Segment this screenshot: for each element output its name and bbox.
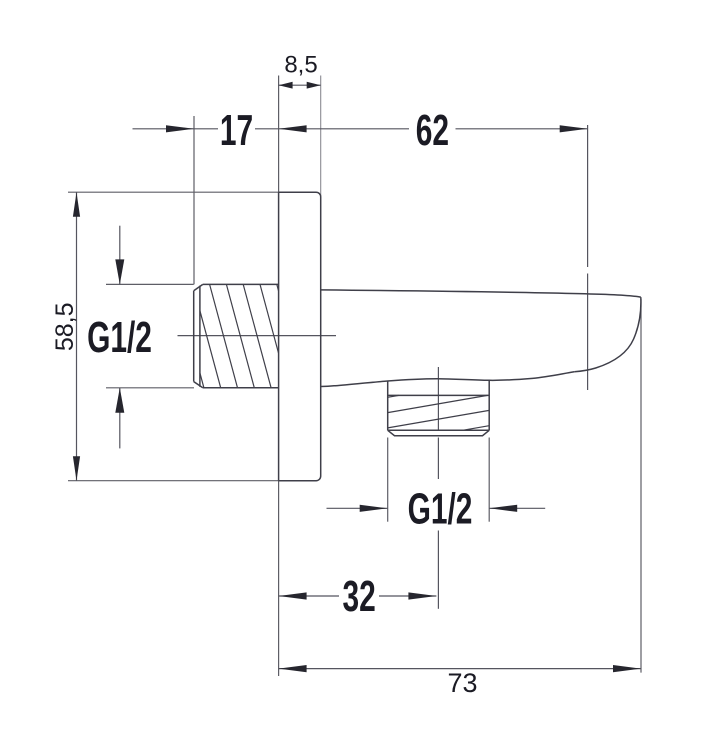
dimension 32 (wall to outlet axis)	[279, 571, 437, 620]
svg-text:8,5: 8,5	[284, 51, 317, 78]
extension line: connector left face vertical for 17 dim	[193, 116, 195, 284]
inlet connector G1/2 (threaded, side view)	[194, 284, 279, 387]
body outline (spout / holder)	[321, 290, 641, 387]
extension line: body tip vertical for 73 dim	[640, 299, 642, 673]
extension line: plate bottom edge extended left for 58,5 dim	[68, 480, 279, 482]
inlet connector thread hatching	[200, 284, 279, 387]
extension tick: connector bottom extended left for G1/2 dim	[106, 387, 194, 389]
wall plate (rosette, side view)	[279, 192, 321, 481]
extension tick: connector top extended left for G1/2 dim	[106, 283, 194, 285]
dimension 8,5 (plate thickness)	[279, 51, 321, 88]
centerline: outlet axis (vertical, dashed)	[437, 367, 439, 609]
dimension 73 (wall to body tip)	[279, 665, 641, 698]
extension line: wall face vertical at x=278.6 (top, for 8,5/17 dims)	[278, 76, 280, 193]
centerline: inlet connector axis (horizontal)	[178, 335, 337, 337]
svg-text:58,5: 58,5	[51, 302, 79, 351]
extension line: outlet right edge extended down for bottom G1/2 dim	[488, 438, 490, 522]
svg-text:73: 73	[447, 668, 477, 698]
extension line: plate right edge extended up for 8,5 dim	[320, 76, 322, 197]
dimension G1/2 (outlet thread, bottom)	[327, 484, 546, 533]
outlet thread hatching	[388, 395, 490, 430]
centerline: handset holder axis (vertical, dashed)	[587, 125, 589, 390]
dimension G1/2 (inlet thread, left)	[87, 226, 152, 449]
extension line: plate top edge extended left for 58,5 dim	[68, 191, 279, 193]
extension line: wall face vertical at x=278.6 (bottom, for 32/73 dims)	[278, 481, 280, 676]
outlet G1/2 (threaded nipple, pointing down)	[388, 380, 490, 435]
svg-text:62: 62	[416, 105, 449, 154]
svg-text:17: 17	[220, 105, 253, 154]
svg-text:G1/2: G1/2	[408, 484, 473, 533]
svg-text:32: 32	[342, 571, 375, 620]
svg-text:G1/2: G1/2	[87, 312, 152, 361]
dimension 58,5 (plate height)	[51, 192, 80, 481]
dimension 17 (wall to connector face) and 62 (wall to holder axis)	[133, 105, 588, 154]
extension line: outlet left edge extended down for bottom G1/2 dim	[387, 438, 389, 522]
